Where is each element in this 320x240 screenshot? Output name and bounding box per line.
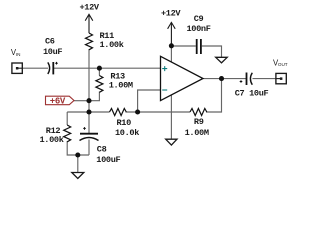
capacitor C6	[48, 62, 58, 75]
port P2 V_OUT	[275, 73, 286, 83]
net label +6V	[46, 96, 75, 106]
supply +12V (left)	[85, 14, 93, 33]
supply +12V (op-amp)	[168, 22, 176, 45]
port P1 V_IN	[12, 63, 23, 73]
junction node (inverting input)	[135, 109, 140, 114]
wire op-amp power pin	[170, 46, 172, 63]
svg-text:OUT: OUT	[278, 62, 288, 67]
wire +6V node down to feedback rail	[88, 101, 90, 112]
svg-text:+6V: +6V	[50, 97, 66, 107]
wire R12 bottom lead	[67, 141, 89, 155]
wire C9 to ground	[202, 46, 222, 57]
capacitor C9	[197, 39, 201, 54]
svg-text:+12V: +12V	[80, 3, 100, 13]
svg-text:10uF: 10uF	[43, 47, 62, 57]
wire feedback rail left	[67, 111, 109, 113]
wire C7 to V_OUT port	[253, 78, 276, 80]
svg-text:10.0k: 10.0k	[115, 128, 139, 138]
capacitor C8	[80, 127, 99, 140]
resistor R13	[96, 76, 103, 93]
resistor R12	[64, 125, 71, 142]
junction node (+12V/C9)	[169, 43, 174, 48]
svg-text:R10: R10	[117, 118, 132, 128]
junction node (+6V)	[86, 98, 91, 103]
wire R9 right to output node	[206, 79, 222, 112]
ground (bottom)	[72, 173, 84, 179]
svg-text:1.00M: 1.00M	[185, 128, 209, 138]
wire ground stem bottom	[77, 155, 79, 173]
svg-text:1.00k: 1.00k	[40, 135, 64, 145]
svg-text:+12V: +12V	[161, 9, 181, 19]
wire C8 bottom lead	[88, 140, 90, 156]
ground (op-amp)	[166, 139, 177, 145]
svg-text:C6: C6	[45, 36, 55, 46]
resistor R9	[190, 109, 207, 116]
wire feedback rail mid	[126, 111, 191, 113]
wire R11 bottom to +6V node	[88, 49, 90, 101]
op-amp U1	[161, 56, 204, 100]
svg-text:C7 10uF: C7 10uF	[235, 89, 269, 99]
svg-text:R9: R9	[194, 117, 204, 127]
wire C8 top lead	[88, 112, 90, 133]
wire V_IN to C6	[23, 67, 48, 69]
junction node (R13 top)	[97, 66, 102, 71]
wire op-amp output to C7	[203, 78, 246, 80]
svg-text:IN: IN	[16, 52, 21, 57]
svg-text:100nF: 100nF	[187, 24, 211, 34]
wire node to op-amp - input	[138, 90, 161, 112]
junction node (ground rail)	[75, 152, 80, 157]
wire R13 top lead	[98, 68, 100, 75]
svg-text:C8: C8	[97, 145, 107, 155]
junction node (bias/C8)	[86, 109, 91, 114]
resistor R10	[110, 109, 127, 116]
wire +6V flag to node	[74, 100, 89, 102]
wire R13 bottom lead to +6V node	[89, 92, 99, 101]
wire C6 to op-amp + input	[54, 67, 161, 69]
ground (C9)	[216, 57, 228, 63]
junction node (output)	[219, 76, 224, 81]
svg-text:100uF: 100uF	[96, 155, 120, 165]
wire +12V node to C9	[171, 45, 195, 47]
wire op-amp ground pin	[170, 95, 172, 139]
resistor R11	[86, 33, 93, 50]
svg-text:C9: C9	[194, 14, 204, 24]
wire R12 top lead	[66, 112, 68, 125]
svg-text:1.00k: 1.00k	[100, 40, 124, 50]
svg-text:1.00M: 1.00M	[109, 81, 133, 91]
capacitor C7	[240, 73, 253, 86]
